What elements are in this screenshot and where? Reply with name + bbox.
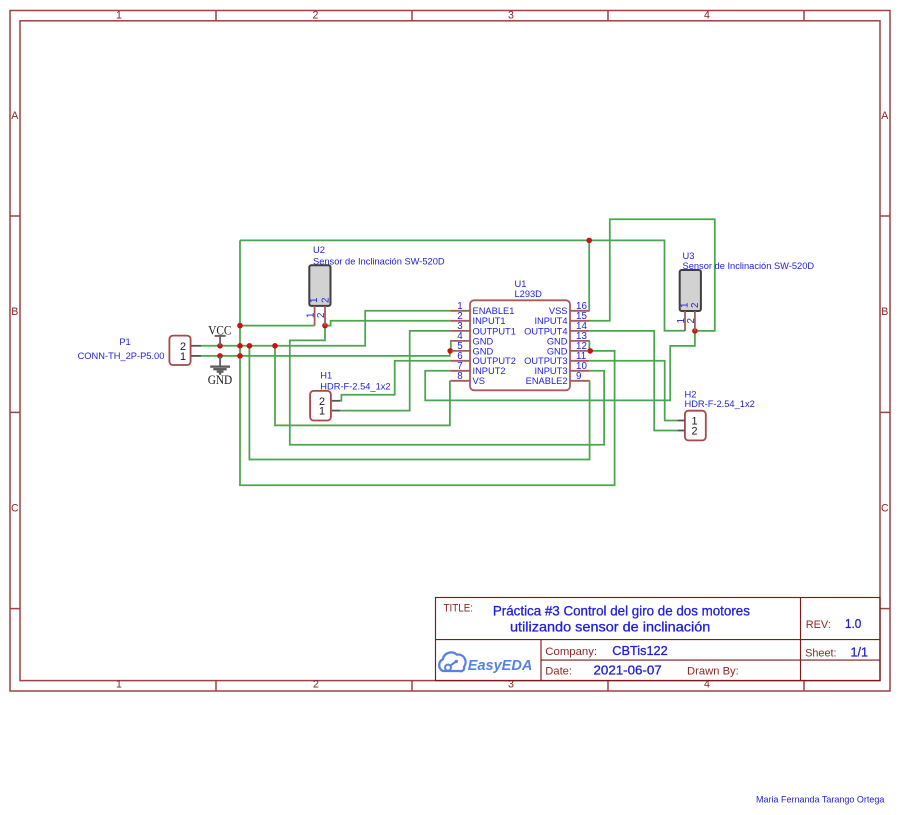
svg-text:INPUT1: INPUT1 [473, 316, 506, 326]
svg-text:C: C [881, 502, 889, 514]
svg-text:3: 3 [508, 9, 514, 21]
svg-text:C: C [11, 502, 19, 514]
svg-text:U2: U2 [313, 245, 325, 255]
svg-text:1: 1 [319, 406, 325, 418]
svg-text:1/1: 1/1 [851, 646, 869, 660]
svg-text:2: 2 [313, 679, 319, 691]
svg-text:A: A [11, 110, 19, 122]
svg-text:GND: GND [547, 336, 568, 346]
svg-text:4: 4 [704, 9, 710, 21]
svg-text:U1: U1 [515, 279, 527, 289]
svg-text:A: A [881, 110, 889, 122]
svg-text:INPUT4: INPUT4 [534, 316, 567, 326]
svg-text:GND: GND [473, 336, 494, 346]
svg-text:2: 2 [686, 318, 697, 323]
svg-text:2021-06-07: 2021-06-07 [594, 664, 662, 678]
svg-text:2: 2 [316, 313, 327, 318]
svg-text:Práctica #3 Control del giro d: Práctica #3 Control del giro de dos moto… [493, 603, 750, 618]
svg-text:OUTPUT2: OUTPUT2 [473, 356, 516, 366]
svg-text:CBTis122: CBTis122 [612, 644, 667, 658]
svg-text:EasyEDA: EasyEDA [468, 657, 533, 674]
svg-text:Maria Fernanda Tarango Ortega: Maria Fernanda Tarango Ortega [756, 795, 884, 805]
svg-text:1: 1 [116, 679, 122, 691]
svg-text:1: 1 [116, 9, 122, 21]
svg-text:utilizando sensor de inclinaci: utilizando sensor de inclinación [510, 619, 710, 634]
svg-text:HDR-F-2.54_1x2: HDR-F-2.54_1x2 [685, 399, 755, 409]
svg-text:OUTPUT4: OUTPUT4 [524, 326, 567, 336]
svg-text:Drawn By:: Drawn By: [687, 666, 739, 678]
svg-text:9: 9 [576, 371, 581, 382]
svg-text:2: 2 [313, 9, 319, 21]
svg-text:INPUT2: INPUT2 [473, 366, 506, 376]
svg-text:L293D: L293D [515, 289, 543, 299]
svg-text:P1: P1 [119, 337, 130, 347]
svg-text:HDR-F-2.54_1x2: HDR-F-2.54_1x2 [320, 382, 390, 392]
svg-text:8: 8 [457, 371, 463, 382]
svg-text:Sensor de Inclinación SW-520D: Sensor de Inclinación SW-520D [683, 261, 815, 271]
svg-text:1: 1 [309, 298, 320, 303]
svg-text:GND: GND [547, 346, 568, 356]
svg-text:Company:: Company: [545, 646, 597, 658]
svg-text:INPUT3: INPUT3 [534, 366, 567, 376]
svg-text:H1: H1 [320, 371, 332, 381]
svg-text:B: B [11, 306, 18, 318]
svg-text:U3: U3 [683, 251, 695, 261]
svg-text:1: 1 [180, 351, 186, 363]
svg-text:Date:: Date: [545, 666, 572, 678]
svg-text:2: 2 [320, 298, 331, 303]
svg-text:CONN-TH_2P-P5.00: CONN-TH_2P-P5.00 [78, 351, 165, 361]
svg-text:1.0: 1.0 [845, 617, 861, 631]
svg-text:GND: GND [208, 373, 233, 387]
svg-text:GND: GND [473, 346, 494, 356]
svg-text:B: B [881, 306, 888, 318]
svg-text:1: 1 [679, 303, 690, 308]
svg-text:Sheet:: Sheet: [805, 648, 837, 660]
svg-text:REV:: REV: [806, 619, 831, 631]
svg-text:1: 1 [306, 313, 317, 318]
svg-text:Sensor de Inclinación SW-520D: Sensor de Inclinación SW-520D [313, 257, 445, 267]
svg-text:2: 2 [690, 303, 701, 308]
svg-text:VSS: VSS [549, 306, 568, 316]
svg-text:TITLE:: TITLE: [444, 603, 474, 615]
svg-text:OUTPUT1: OUTPUT1 [473, 326, 516, 336]
svg-text:2: 2 [692, 426, 698, 438]
svg-text:OUTPUT3: OUTPUT3 [524, 356, 567, 366]
svg-text:VCC: VCC [208, 323, 231, 337]
svg-text:ENABLE1: ENABLE1 [473, 306, 515, 316]
svg-text:ENABLE2: ENABLE2 [526, 376, 568, 386]
svg-text:VS: VS [473, 376, 485, 386]
